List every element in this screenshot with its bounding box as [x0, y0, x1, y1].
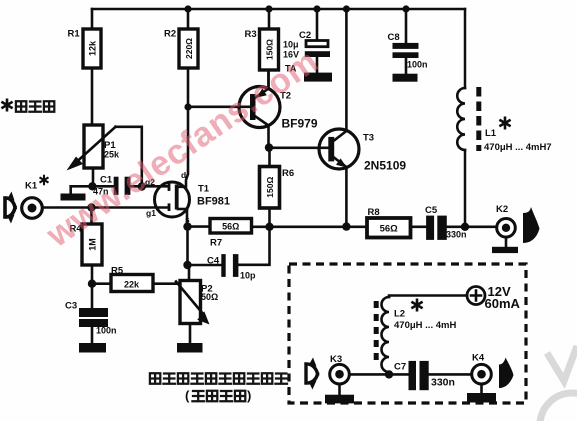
caption line 1: [150, 373, 287, 384]
connector K2: [496, 204, 515, 247]
capacitor C3: [65, 284, 117, 343]
wire +12V to L2: [389, 296, 467, 298]
svg-text:22k: 22k: [124, 280, 140, 290]
svg-text:R8: R8: [368, 207, 380, 218]
ground under K3: [325, 395, 354, 404]
node L1 junction on output line: [461, 223, 469, 231]
resistor R4: [70, 208, 103, 284]
capacitor C1: [93, 175, 130, 197]
node L2 junction: [385, 370, 393, 378]
wire P1 wiper to g2 node: [116, 127, 142, 187]
asterisk at L1: [501, 118, 510, 128]
svg-text:12k: 12k: [88, 40, 98, 56]
transistor T3 2N5109: [319, 9, 406, 227]
wire output line T1 source to R7: [188, 225, 211, 228]
note see text annotation: [3, 100, 55, 112]
resistor R3: [245, 9, 279, 86]
junction on rail above C8: [402, 5, 409, 12]
svg-text:R3: R3: [245, 29, 257, 40]
svg-text:100n: 100n: [407, 60, 428, 70]
phantom power dashed box: [289, 264, 526, 403]
gray logo bottom-right (decorative): [540, 346, 577, 421]
resistor R5: [92, 266, 177, 292]
svg-text:25k: 25k: [104, 150, 120, 160]
svg-text:BF979: BF979: [282, 117, 318, 131]
junction on rail above R2: [184, 5, 191, 12]
wire R8 to C5: [411, 226, 427, 229]
resistor R8: [367, 207, 411, 238]
node input junction at R4: [87, 203, 95, 211]
caption line 2: [185, 388, 251, 403]
junction on rail above T3 collector: [343, 5, 350, 12]
svg-text:BF981: BF981: [197, 196, 230, 208]
mosfet T1 BF981: [145, 170, 230, 225]
svg-text:g1: g1: [146, 208, 156, 218]
svg-text:R1: R1: [68, 29, 81, 40]
wire collector node to T3 base: [269, 147, 328, 150]
svg-text:K4: K4: [472, 353, 485, 364]
asterisk at K1: [40, 176, 47, 184]
svg-text:K3: K3: [330, 354, 342, 365]
capacitor C5: [425, 205, 467, 240]
wire C7 to K4: [429, 373, 472, 376]
wire T1 source down to output line: [186, 209, 189, 227]
node T2 collector junction: [265, 143, 273, 151]
svg-text:470μH ... 4mH7: 470μH ... 4mH7: [484, 142, 552, 153]
capacitor C8: [388, 9, 428, 74]
svg-text:470μH ... 4mH: 470μH ... 4mH: [394, 320, 456, 331]
svg-text:1M: 1M: [88, 238, 98, 251]
resistor R2: [164, 9, 198, 68]
connector K3: [306, 354, 349, 395]
wire input line K1 to T1 g1: [43, 206, 169, 209]
svg-text:K2: K2: [496, 204, 508, 215]
output arrow at K2: [523, 207, 540, 243]
svg-text:R7: R7: [210, 238, 222, 249]
svg-text:220Ω: 220Ω: [184, 38, 194, 59]
svg-text:C5: C5: [425, 205, 438, 216]
svg-text:C3: C3: [65, 301, 77, 312]
resistor R6: [260, 148, 295, 227]
ground under C2: [304, 73, 332, 82]
stub bar at left end of C1 line: [61, 186, 86, 200]
svg-text:150Ω: 150Ω: [265, 177, 275, 198]
ground under K2: [492, 247, 518, 253]
svg-text:330n: 330n: [446, 230, 467, 240]
svg-text:C4: C4: [207, 256, 220, 267]
ground under C8: [393, 74, 418, 82]
capacitor C7: [394, 361, 455, 390]
svg-text:R5: R5: [111, 266, 124, 277]
wire top supply rail: [92, 8, 465, 11]
asterisk at L2: [413, 300, 422, 310]
resistor R7: [210, 219, 252, 249]
svg-text:150Ω: 150Ω: [265, 39, 275, 60]
svg-text:L2: L2: [394, 309, 405, 320]
capacitor C4: [188, 227, 270, 281]
node R4/R5/C3 junction: [88, 280, 96, 288]
wire R7 to R8: [252, 226, 368, 229]
node g2 junction: [138, 182, 146, 190]
junction on rail above R3: [265, 5, 272, 12]
potentiometer P2: [176, 265, 218, 343]
svg-text:C2: C2: [299, 30, 311, 41]
svg-text:10p: 10p: [240, 271, 256, 281]
svg-text:R6: R6: [282, 168, 294, 179]
potentiometer P1: [67, 125, 121, 171]
svg-text:): ): [247, 388, 251, 403]
supply +12V 60mA: [467, 284, 521, 311]
connector K4: [472, 353, 492, 394]
svg-text:50Ω: 50Ω: [201, 292, 218, 302]
svg-text:C8: C8: [388, 32, 400, 43]
resistor R1: [68, 9, 102, 125]
ground under P2: [177, 343, 203, 353]
svg-text:330n: 330n: [431, 377, 455, 389]
wire R2 bottom to T1 drain: [177, 68, 188, 187]
svg-text:56Ω: 56Ω: [380, 224, 399, 235]
svg-text:100n: 100n: [96, 326, 117, 336]
inductor L2: [376, 297, 456, 374]
svg-text:R2: R2: [164, 29, 176, 40]
ground under C3: [79, 343, 106, 353]
inductor L1: [457, 9, 551, 227]
node C4/P2 junction: [183, 261, 191, 269]
connector K1: [5, 181, 42, 224]
wire C5 to K2: [447, 226, 497, 229]
svg-text:L1: L1: [485, 128, 497, 139]
node T1 source junction: [183, 222, 191, 230]
svg-text:(: (: [185, 388, 190, 403]
capacitor C2: [283, 9, 330, 74]
svg-text:2N5109: 2N5109: [364, 159, 406, 173]
node output junction at R6/C4: [265, 223, 273, 231]
node T3 emitter junction on output line: [342, 222, 350, 230]
svg-text:56Ω: 56Ω: [222, 222, 239, 232]
node P1/C1 junction: [88, 182, 96, 190]
svg-text:T3: T3: [363, 133, 374, 144]
wire P1 bottom to C1 line: [92, 168, 95, 186]
transistor T2 BF979: [239, 70, 318, 148]
ground under K4: [467, 393, 496, 403]
svg-text:T1: T1: [198, 184, 210, 195]
junction on rail above C2: [313, 5, 320, 12]
wire T2 base: [188, 106, 250, 109]
junction T2 base node: [184, 103, 191, 110]
svg-text:60mA: 60mA: [485, 296, 521, 311]
svg-text:K1: K1: [25, 181, 38, 192]
wire K3 to C7: [349, 373, 408, 376]
output arrow at K4: [499, 358, 514, 389]
svg-text:C7: C7: [394, 362, 406, 373]
wire g2 line / C1 branch: [71, 185, 169, 188]
